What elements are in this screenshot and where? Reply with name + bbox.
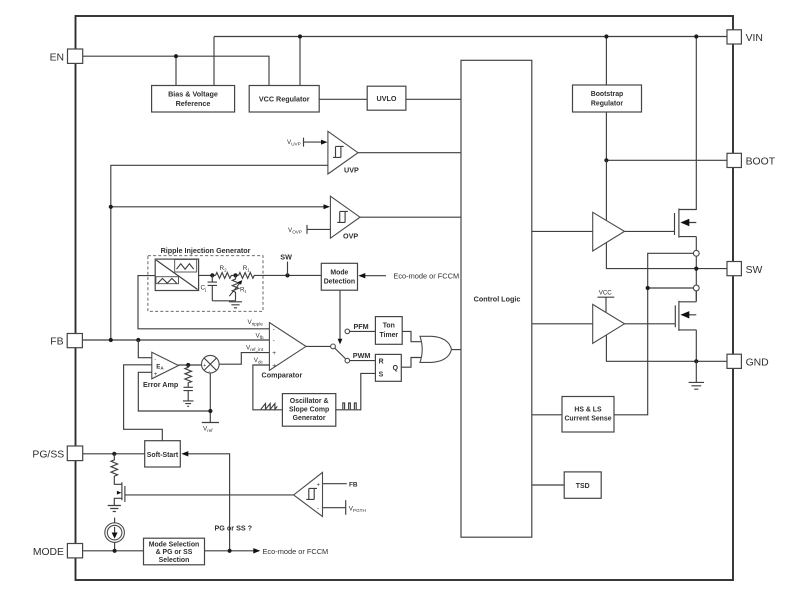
wire UVLO to Control Logic: [406, 98, 461, 100]
wire FB sense rail: [111, 165, 328, 340]
label FB input to PG comparator: [323, 482, 358, 489]
wire Mode Detection to switch (arrow): [338, 290, 343, 344]
wire VIN to Bootstrap Regulator: [605, 37, 607, 86]
wire RS Q to OR gate: [401, 358, 421, 368]
waveform clock pulses: [343, 403, 356, 409]
current source MODE detect: [105, 518, 125, 551]
wire mode select to Soft-Start (arrow): [181, 451, 229, 551]
block Soft-Start: [145, 441, 181, 467]
resistor R2: [216, 265, 232, 279]
pin GND: [727, 354, 769, 368]
block Oscillator & Slope Comp Generator: [282, 394, 335, 427]
svg-text:PG or SS ?: PG or SS ?: [215, 524, 253, 533]
wire Bootstrap to BOOT pin: [606, 112, 727, 160]
svg-text:OVP: OVP: [343, 232, 358, 241]
label Vdc: [254, 357, 264, 365]
wire error amp + input to Vref node: [138, 372, 210, 411]
svg-text:SW: SW: [746, 265, 763, 276]
svg-text:+: +: [154, 372, 158, 378]
svg-text:VCC: VCC: [599, 290, 613, 297]
wire comparator output to mode switch: [306, 345, 331, 347]
wire Control Logic to LS driver: [532, 323, 593, 325]
wire multiplier to Vref: [209, 373, 211, 423]
supply Vref reference: [202, 423, 219, 434]
pin MODE: [33, 544, 83, 558]
label VOVP: [288, 225, 330, 235]
wire OR gate to Control Logic: [452, 349, 462, 351]
svg-text:Detection: Detection: [324, 279, 355, 286]
svg-text:Slope Comp: Slope Comp: [289, 407, 329, 414]
ground power stage: [689, 361, 704, 389]
node VIN/Bootstrap junction: [604, 34, 608, 38]
wire FB pin to comparator: [83, 339, 270, 341]
wire HS sense to current sense block: [614, 253, 693, 414]
wire VIN down power rail: [695, 37, 697, 210]
ground ripple network: [229, 302, 242, 308]
wire EN to Bias: [175, 56, 177, 85]
wire VIN to Bias: [213, 37, 215, 86]
pin FB: [50, 334, 82, 348]
svg-text:MODE: MODE: [33, 547, 64, 558]
label PG or SS ?: [215, 524, 253, 533]
svg-text:EN: EN: [50, 52, 64, 63]
svg-text:SW: SW: [280, 252, 292, 261]
label Eco-mode or FCCM input: [358, 271, 459, 280]
buffer HS gate driver: [593, 212, 625, 251]
wire Ton Timer to OR gate: [402, 331, 421, 341]
wire ripple generator output to comparator Vripple: [138, 276, 269, 329]
node rail GND junction: [694, 359, 698, 363]
wire VIN top rail: [214, 36, 727, 38]
switch lever to PWM: [335, 348, 346, 359]
wire Bootstrap to HS driver supply: [605, 160, 607, 221]
wire HS driver lower rail to SW: [606, 243, 727, 269]
pin EN: [50, 49, 83, 63]
label PFM: [354, 322, 369, 331]
wire PG/SS pin to Soft-Start: [83, 453, 145, 455]
label SW node: [280, 252, 292, 275]
resistor Rt (adjustable): [229, 275, 246, 300]
svg-text:Bootstrap: Bootstrap: [591, 91, 624, 98]
op-amp main PWM comparator: [262, 323, 307, 380]
pin PG/SS: [32, 446, 82, 461]
node switch pole: [331, 344, 336, 349]
wire soft-start to error amp middle input: [124, 365, 163, 442]
waveform sawtooth on slope comp wire: [261, 404, 278, 410]
gate OR (PWM/PFM combine): [420, 336, 452, 362]
block Mode Selection & PG or SS Selection: [144, 538, 205, 565]
wire EN horizontal: [83, 56, 269, 85]
svg-text:TSD: TSD: [576, 483, 590, 490]
ripple generator modulator box: [155, 259, 198, 290]
svg-text:& PG or SS: & PG or SS: [156, 549, 193, 556]
node PWM throw: [345, 358, 350, 363]
svg-text:Eco-mode or FCCM: Eco-mode or FCCM: [263, 547, 329, 556]
svg-text:VCC Regulator: VCC Regulator: [259, 95, 310, 104]
svg-text:Selection: Selection: [159, 557, 190, 564]
wire TSD to Control Logic: [532, 484, 564, 486]
wire Cj to Rt ground: [212, 300, 235, 302]
resistor compensation: [185, 365, 192, 387]
label Vfb: [256, 332, 264, 340]
block Ripple Injection Generator (dashed): [148, 246, 263, 311]
op-amp PG comparator (points left): [294, 472, 323, 516]
wire Control Logic to HS driver: [532, 230, 593, 232]
wire VCC Regulator to UVLO: [319, 98, 367, 100]
block Control Logic: [461, 60, 532, 537]
svg-text:R: R: [379, 359, 384, 366]
wire oscillator to Vdc input: [253, 365, 283, 410]
node HS current sense tap: [693, 250, 699, 256]
wire OVP output to Control Logic: [360, 216, 461, 218]
buffer LS gate driver: [593, 304, 625, 343]
wire FB rail to OVP: [111, 206, 325, 208]
transistor HS MOSFET: [675, 209, 697, 238]
supply VCC for LS driver: [598, 290, 615, 313]
wire multiplier to Vref_int input: [219, 353, 269, 365]
op-amp OVP comparator: [330, 196, 360, 241]
label VUVP: [287, 138, 328, 147]
svg-text:-: -: [273, 327, 275, 333]
svg-text:PG/SS: PG/SS: [32, 449, 64, 460]
svg-text:UVP: UVP: [344, 166, 359, 175]
label VPGTH input: [323, 500, 366, 515]
wire generator right to SW node: [199, 274, 322, 276]
node eco-mode/PG junction: [228, 549, 232, 553]
label Vripple: [248, 319, 264, 327]
node MODE current source tap: [113, 549, 117, 553]
svg-text:Mode: Mode: [330, 269, 348, 276]
svg-text:Ton: Ton: [383, 323, 395, 330]
capacitor compensation: [184, 387, 193, 401]
wire PG comparator output to gate: [130, 494, 294, 496]
svg-text:Timer: Timer: [379, 332, 398, 339]
svg-text:Generator: Generator: [293, 415, 326, 422]
block Mode Detection: [321, 263, 357, 290]
node Bootstrap/BOOT junction: [604, 158, 608, 162]
pin SW: [727, 262, 763, 276]
svg-text:-: -: [317, 506, 319, 512]
node sense join: [646, 286, 650, 290]
arrowhead into OVP + input: [324, 204, 331, 209]
wire oscillator to RS latch S input: [336, 373, 376, 409]
svg-text:Regulator: Regulator: [591, 101, 623, 108]
block Bias & Voltage Reference: [152, 86, 235, 113]
node OVP tap: [109, 205, 113, 209]
svg-text:Mode Selection: Mode Selection: [149, 541, 200, 548]
svg-text:Oscillator &: Oscillator &: [290, 398, 329, 405]
wire LS driver output to LS FET gate: [625, 323, 676, 325]
svg-text:VIN: VIN: [746, 33, 763, 44]
node PFM throw: [345, 329, 350, 334]
svg-text:FB: FB: [349, 482, 358, 489]
node PG/SS pulldown tap: [112, 452, 116, 456]
wire current sense to Control Logic: [532, 414, 562, 416]
node LS current sense tap: [693, 285, 699, 291]
transistor LS MOSFET: [675, 301, 696, 331]
node VIN/VCC junction: [298, 34, 302, 38]
wire PFM to Ton Timer: [350, 330, 376, 332]
wire LS drain to sense tap: [695, 291, 697, 361]
svg-text:Q: Q: [393, 365, 399, 372]
node compensation tap: [186, 363, 190, 367]
svg-text:HS & LS: HS & LS: [574, 407, 602, 414]
wire MODE pin to Mode Selection: [83, 550, 144, 552]
label Vref_int: [246, 345, 264, 353]
svg-text:Bias & Voltage: Bias & Voltage: [168, 90, 218, 99]
svg-text:+: +: [317, 482, 321, 488]
svg-text:Comparator: Comparator: [262, 371, 303, 380]
transistor PG open-drain MOSFET: [114, 482, 130, 506]
pin BOOT: [727, 153, 776, 167]
IC outer boundary: [76, 16, 734, 580]
node Vref junction: [208, 409, 212, 413]
resistor R1: [239, 265, 255, 279]
flip-flop RS latch: [375, 354, 401, 381]
svg-text:FB: FB: [50, 336, 63, 347]
wire VIN to VCC Regulator: [299, 37, 301, 86]
svg-text:Current Sense: Current Sense: [564, 416, 611, 423]
block UVLO: [367, 86, 406, 110]
wire power rail VIN to SW: [695, 210, 697, 301]
svg-text:Control Logic: Control Logic: [474, 295, 521, 304]
svg-text:Soft-Start: Soft-Start: [147, 452, 179, 459]
svg-text:GND: GND: [746, 358, 769, 369]
pin VIN: [727, 30, 763, 44]
svg-text:+: +: [272, 363, 276, 370]
ground PG MOSFET source: [108, 506, 121, 512]
resistor PG pull-up: [111, 454, 118, 482]
node FB/UVP-OVP rail: [109, 338, 113, 342]
node Rt tap: [233, 273, 237, 277]
block TSD: [564, 472, 601, 498]
block Bootstrap Regulator: [573, 85, 642, 112]
wire PWM to RS latch R input: [350, 360, 376, 362]
block Ton Timer: [375, 317, 402, 345]
op-amp error amplifier EA: [143, 352, 179, 389]
svg-text:S: S: [379, 372, 384, 379]
svg-text:+: +: [203, 363, 206, 369]
wire LS sense join: [648, 287, 694, 289]
svg-text:PWM: PWM: [353, 351, 371, 360]
svg-text:-: -: [154, 357, 156, 363]
svg-text:Reference: Reference: [176, 99, 211, 108]
node EN/Bias junction: [174, 54, 178, 58]
wire LS driver lower rail to GND: [606, 335, 727, 361]
wire UVP output to Control Logic: [358, 152, 461, 154]
svg-text:+: +: [272, 350, 276, 357]
node VIN/rail junction: [694, 34, 698, 38]
ground compensation: [183, 401, 194, 406]
svg-text:BOOT: BOOT: [746, 157, 776, 168]
wire HS driver output to HS FET gate: [625, 230, 675, 232]
capacitor Cj: [201, 275, 218, 300]
svg-text:Eco-mode or FCCM: Eco-mode or FCCM: [393, 271, 459, 280]
node rail SW junction: [694, 267, 698, 271]
block HS & LS Current Sense: [562, 397, 614, 433]
svg-text:-: -: [273, 338, 275, 344]
svg-text:Ripple Injection Generator: Ripple Injection Generator: [161, 246, 251, 255]
block VCC Regulator: [249, 86, 319, 113]
node FB/error amp tap: [136, 338, 140, 342]
multiplier summing node: [202, 355, 220, 374]
label PWM: [353, 351, 371, 360]
wire error amp output to multiplier: [179, 364, 202, 366]
svg-text:UVLO: UVLO: [377, 94, 397, 103]
op-amp UVP comparator: [328, 131, 359, 174]
node Cj tap: [210, 273, 214, 277]
wire Mode Selection output (Eco-mode): [205, 547, 329, 556]
svg-text:Error Amp: Error Amp: [143, 380, 179, 389]
wire FB to error amp inverting input: [138, 340, 152, 358]
svg-text:PFM: PFM: [354, 322, 369, 331]
node SW tap: [285, 273, 289, 277]
